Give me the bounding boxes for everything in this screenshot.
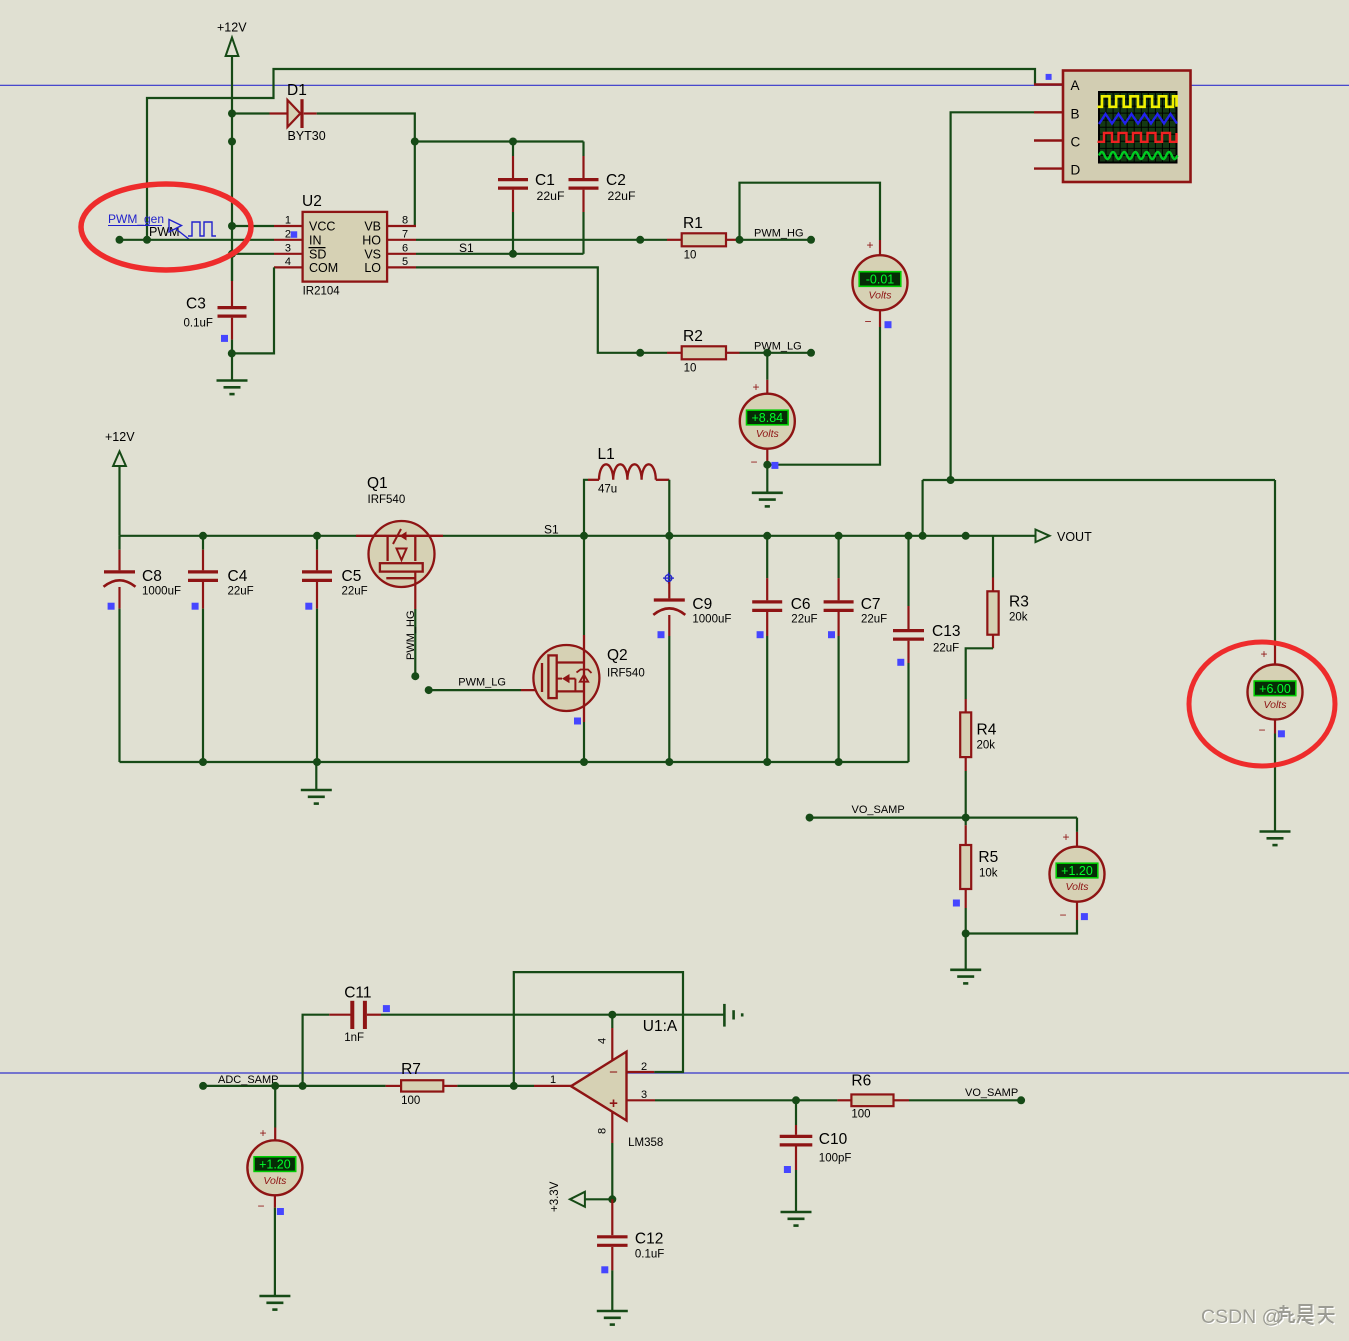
svg-text:+: + (866, 238, 873, 252)
voltmeter V3 +1.20V (247, 1086, 302, 1296)
node C4 top (199, 532, 207, 540)
ground (C3/COM) (231, 353, 233, 380)
wire VS to C1/C2 bottoms (416, 253, 584, 255)
svg-text:PWM_LG: PWM_LG (754, 341, 802, 353)
wire SD from +12V rail (232, 253, 274, 255)
svg-text:3: 3 (641, 1089, 647, 1101)
svg-text:PWM_HG: PWM_HG (405, 611, 417, 661)
wire VB node horizontal (415, 140, 584, 142)
svg-text:C7: C7 (861, 596, 881, 613)
svg-text:10: 10 (684, 250, 697, 262)
svg-text:Q1: Q1 (367, 475, 388, 492)
node PWM_HG terminal (807, 236, 815, 244)
node C11 branch (299, 1082, 307, 1090)
resistor R4 20k (960, 699, 996, 818)
ground (rotated, op-amp ref) (724, 1004, 742, 1027)
annotation red ellipse around V4 (1189, 642, 1335, 766)
node PWM_LG terminal (425, 686, 433, 694)
generator PWM_gen (108, 212, 216, 240)
svg-text:1: 1 (285, 215, 291, 227)
power +3.3V (549, 1181, 612, 1212)
capacitor C12 0.1uF (597, 1199, 664, 1311)
svg-text:22uF: 22uF (933, 643, 959, 655)
node C9 top (665, 532, 673, 540)
svg-text:C11: C11 (344, 985, 371, 1002)
svg-text:22uF: 22uF (228, 586, 254, 598)
node x=232 y=141.5 (228, 138, 236, 146)
node rail C9 (665, 758, 673, 766)
node LO row (636, 349, 644, 357)
svg-text:PWM_gen: PWM_gen (108, 212, 164, 226)
node ADC_SAMP terminal (199, 1082, 207, 1090)
svg-text:+: + (259, 1126, 266, 1140)
node VOUT drop junction (919, 532, 927, 540)
capacitor C10 100pF (780, 1100, 852, 1212)
svg-text:−: − (864, 315, 871, 329)
voltmeter V4 +6.00V (1248, 480, 1303, 737)
svg-text:R4: R4 (977, 722, 997, 739)
svg-text:20k: 20k (1009, 612, 1028, 624)
wire pin4 supply (611, 1015, 613, 1028)
wire R3 to R4 jog (966, 648, 993, 699)
wire scope-A tap from PWM node (147, 69, 1035, 240)
svg-text:−: − (1059, 908, 1066, 922)
wire scope channel B from VOUT (951, 112, 1034, 480)
svg-text:IR2104: IR2104 (303, 286, 341, 298)
wire Q2 drain (583, 536, 585, 635)
svg-text:3: 3 (285, 242, 291, 254)
svg-text:20k: 20k (977, 740, 996, 752)
wire R1 to voltmeter V1+ (740, 183, 881, 240)
svg-text:L1: L1 (598, 446, 615, 463)
node scope-A corner square (1046, 74, 1052, 80)
svg-text:C3: C3 (186, 296, 206, 313)
svg-text:+12V: +12V (217, 21, 247, 35)
svg-text:U1:A: U1:A (643, 1018, 678, 1035)
node C1 top (509, 138, 517, 146)
node PWM tap junction (143, 236, 151, 244)
oscilloscope screen (1098, 92, 1178, 163)
node D1 branch (228, 110, 236, 118)
node C6 top (763, 532, 771, 540)
capacitor C7 22uF (824, 536, 888, 762)
capacitor C8 1000uF (104, 536, 182, 762)
svg-text:R6: R6 (851, 1073, 871, 1090)
svg-text:22uF: 22uF (537, 189, 566, 203)
wire pin3 row (655, 1099, 837, 1101)
svg-text:C1: C1 (535, 172, 555, 189)
svg-text:C5: C5 (342, 568, 362, 585)
wire PWM_LG to Q2 gate (429, 689, 542, 691)
svg-text:B: B (1071, 106, 1080, 121)
svg-text:IRF540: IRF540 (607, 668, 645, 680)
svg-text:1: 1 (550, 1074, 556, 1086)
wire VCC from +12V rail (232, 225, 274, 227)
svg-text:D: D (1071, 163, 1081, 178)
capacitor C13 22uF (893, 536, 960, 762)
node pin4 junction (608, 1011, 616, 1019)
ground (V3) (259, 1296, 290, 1310)
node S1 (580, 532, 588, 540)
node HO row (636, 236, 644, 244)
svg-text:−: − (1258, 723, 1265, 737)
wire drop to VOUT line (921, 480, 923, 536)
node VO_SAMP terminal (806, 814, 814, 822)
ground (V4) (1274, 734, 1276, 832)
svg-text:SD: SD (309, 247, 326, 261)
IC U2 IR2104 (274, 193, 416, 298)
capacitor C9 1000uF (653, 536, 731, 762)
svg-text:+: + (1062, 830, 1069, 844)
svg-text:100pF: 100pF (819, 1153, 852, 1165)
svg-text:VS: VS (364, 247, 381, 261)
svg-text:COM: COM (309, 261, 338, 275)
node C10 branch (792, 1096, 800, 1104)
blue rule line top (0, 84, 1349, 86)
svg-text:+3.3V: +3.3V (549, 1181, 561, 1212)
inductor L1 47u (584, 446, 669, 536)
svg-text:+: + (609, 1095, 618, 1112)
svg-text:Volts: Volts (1264, 699, 1288, 711)
node 3.3V junction (608, 1195, 616, 1203)
svg-text:10k: 10k (979, 868, 998, 880)
svg-text:8: 8 (597, 1128, 609, 1134)
annotation red ellipse around PWM input (81, 184, 251, 270)
wire LO row (416, 267, 667, 352)
power +12V (top) (217, 21, 247, 57)
svg-text:C2: C2 (606, 172, 626, 189)
svg-text:R2: R2 (683, 328, 703, 345)
node C7 top (835, 532, 843, 540)
node PWM_LG terminal (807, 349, 815, 357)
svg-text:Volts: Volts (1066, 881, 1090, 893)
node V2- junction (763, 461, 771, 469)
svg-text:10: 10 (684, 363, 697, 375)
svg-text:LO: LO (364, 261, 381, 275)
svg-text:HO: HO (362, 233, 381, 247)
svg-text:5: 5 (402, 256, 408, 268)
capacitor C2 (569, 142, 637, 254)
node R2 out (763, 349, 771, 357)
ground (V2) (766, 465, 768, 493)
transistor Q1 IRF540 (356, 475, 443, 587)
resistor R6 100 (837, 1073, 909, 1121)
svg-text:U2: U2 (302, 193, 322, 210)
node PWM generator terminal (116, 236, 124, 244)
svg-text:PWM_HG: PWM_HG (754, 228, 804, 240)
svg-text:Q2: Q2 (607, 647, 628, 664)
wire VO_SAMP out (909, 1099, 1021, 1101)
node divider junction (962, 814, 970, 822)
svg-text:R7: R7 (401, 1061, 421, 1078)
voltmeter V2 +8.84V (740, 353, 795, 469)
svg-text:22uF: 22uF (791, 614, 817, 626)
wire V1- to ground net (767, 327, 880, 465)
svg-text:C9: C9 (692, 596, 712, 613)
svg-text:C: C (1071, 135, 1081, 150)
svg-text:IN: IN (309, 233, 322, 247)
svg-text:IRF540: IRF540 (368, 494, 406, 506)
wire VOUT to V4 and B-channel (923, 479, 1275, 481)
capacitor C11 1nF (303, 985, 390, 1086)
watermark CSDN (1201, 1306, 1283, 1329)
node C13 top (905, 532, 913, 540)
svg-text:Volts: Volts (756, 428, 780, 440)
svg-text:+6.00: +6.00 (1259, 682, 1291, 696)
voltmeter V1 -0.01V (853, 238, 908, 329)
node rail C4 (199, 758, 207, 766)
svg-text:0.1uF: 0.1uF (184, 318, 213, 330)
op-amp U1:A LM358 (534, 1018, 678, 1149)
node rail Q2 (580, 758, 588, 766)
node VCC junction (228, 222, 236, 230)
ground (C10) (781, 1212, 812, 1226)
node VB junction (411, 138, 419, 146)
svg-text:47u: 47u (598, 484, 617, 496)
svg-text:R3: R3 (1009, 594, 1029, 611)
node VO_SAMP op-amp terminal (1017, 1096, 1025, 1104)
svg-text:D1: D1 (287, 82, 307, 99)
oscilloscope body (1034, 71, 1191, 183)
svg-text:R1: R1 (683, 215, 703, 232)
resistor R3 20k (987, 536, 1028, 649)
svg-text:C13: C13 (932, 623, 960, 640)
resistor R5 10k (953, 818, 998, 934)
svg-text:2: 2 (285, 228, 291, 240)
transistor Q2 IRF540 (533, 635, 644, 725)
blue rule line bottom (0, 1072, 1349, 1074)
svg-text:C4: C4 (228, 568, 248, 585)
svg-text:7: 7 (402, 228, 408, 240)
svg-text:R5: R5 (978, 849, 998, 866)
wire PWM_HG net (740, 239, 812, 241)
svg-text:+: + (1260, 647, 1267, 661)
resistor R7 100 (386, 1061, 458, 1107)
svg-text:LM358: LM358 (628, 1137, 663, 1149)
svg-text:22uF: 22uF (608, 189, 637, 203)
svg-text:6: 6 (402, 242, 408, 254)
wire VO_SAMP row (810, 816, 1077, 818)
svg-text:−: − (609, 1064, 618, 1081)
wire ground rail (120, 761, 909, 763)
wire HO row (416, 239, 667, 241)
svg-text:S1: S1 (544, 523, 559, 537)
svg-text:8: 8 (402, 215, 408, 227)
svg-text:C10: C10 (819, 1131, 848, 1148)
wire C11 output run (381, 1014, 724, 1016)
node rail C6 (763, 758, 771, 766)
node V3 branch (271, 1082, 279, 1090)
wire +12V rail to Q1 (120, 535, 357, 537)
svg-text:BYT30: BYT30 (288, 129, 326, 143)
svg-text:+1.20: +1.20 (1061, 864, 1093, 878)
node B channel junction (947, 476, 955, 484)
svg-text:−: − (257, 1199, 264, 1213)
terminal VOUT arrow (1036, 530, 1093, 545)
svg-text:PWM_LG: PWM_LG (458, 677, 506, 689)
svg-text:C8: C8 (142, 568, 162, 585)
node R5 bottom junction (962, 930, 970, 938)
diode D1 (270, 82, 326, 143)
svg-text:+8.84: +8.84 (751, 411, 783, 425)
node VS C1 junction (509, 250, 517, 258)
capacitor C4 22uF (188, 536, 254, 762)
node R1 out (736, 236, 744, 244)
svg-text:+1.20: +1.20 (259, 1158, 291, 1172)
resistor R2 (667, 328, 740, 375)
svg-text:Volts: Volts (263, 1175, 287, 1187)
svg-text:VO_SAMP: VO_SAMP (965, 1087, 1018, 1099)
svg-text:+12V: +12V (105, 430, 135, 444)
node C5 top (313, 532, 321, 540)
resistor R1 (667, 215, 740, 262)
svg-text:VO_SAMP: VO_SAMP (852, 804, 905, 816)
ground (main rail) (315, 762, 317, 790)
svg-text:4: 4 (285, 256, 291, 268)
wire D1 anode branch (232, 112, 270, 114)
wire COM return (232, 267, 274, 353)
svg-text:22uF: 22uF (861, 614, 887, 626)
ground (R5/V5) (965, 934, 967, 970)
wire ADC_SAMP row (203, 1085, 386, 1087)
wire VB drop to pin 8 (414, 142, 416, 227)
node COM/C3 junction (228, 349, 236, 357)
capacitor C6 22uF (752, 536, 817, 762)
wire PWM net to U2.IN (120, 239, 275, 241)
svg-text:1000uF: 1000uF (142, 586, 181, 598)
node rail C7 (835, 758, 843, 766)
svg-text:PWM: PWM (149, 225, 180, 239)
svg-text:C6: C6 (791, 596, 811, 613)
node feedback junction (510, 1082, 518, 1090)
svg-text:C12: C12 (635, 1231, 663, 1248)
svg-text:100: 100 (401, 1095, 420, 1107)
svg-text:ADC_SAMP: ADC_SAMP (218, 1074, 279, 1086)
svg-text:1000uF: 1000uF (692, 614, 731, 626)
node VOUT mid (962, 532, 970, 540)
svg-text:0.1uF: 0.1uF (635, 1249, 664, 1261)
wire R7 to op-amp output (457, 1085, 534, 1087)
capacitor C5 22uF (302, 536, 368, 762)
wire pin8 to 3.3V (611, 1143, 613, 1199)
svg-text:−: − (750, 455, 757, 469)
svg-text:VCC: VCC (309, 220, 335, 234)
svg-text:100: 100 (851, 1109, 870, 1121)
svg-text:+: + (752, 380, 759, 394)
node Q1 gate terminal (411, 672, 419, 680)
wire +12V stem (118, 466, 120, 536)
wire PWM_LG net (740, 352, 812, 354)
voltmeter V5 +1.20V (966, 818, 1105, 934)
svg-text:22uF: 22uF (342, 586, 368, 598)
wire Q2 source to rail (583, 722, 585, 762)
capacitor C1 (498, 142, 565, 254)
wire D1 cathode to VB node (317, 114, 415, 142)
ground (C12) (597, 1311, 628, 1325)
svg-text:Volts: Volts (869, 290, 893, 302)
svg-text:-0.01: -0.01 (866, 273, 895, 287)
svg-text:A: A (1071, 78, 1080, 93)
capacitor C3 (184, 254, 247, 354)
svg-text:VOUT: VOUT (1057, 530, 1092, 544)
node SD junction (228, 250, 236, 258)
svg-text:1nF: 1nF (344, 1032, 364, 1044)
wire +12V vertical x=232 (231, 56, 233, 281)
node rail C5 (313, 758, 321, 766)
wire Q1 gate (PWM_HG) (414, 572, 416, 677)
wire op-amp feedback loop (514, 972, 683, 1086)
wire S1 row (443, 535, 1036, 537)
svg-text:4: 4 (597, 1038, 609, 1044)
power +12V (middle) (105, 430, 135, 466)
svg-text:CSDN @: CSDN @ (1201, 1306, 1281, 1328)
svg-text:VB: VB (364, 220, 381, 234)
